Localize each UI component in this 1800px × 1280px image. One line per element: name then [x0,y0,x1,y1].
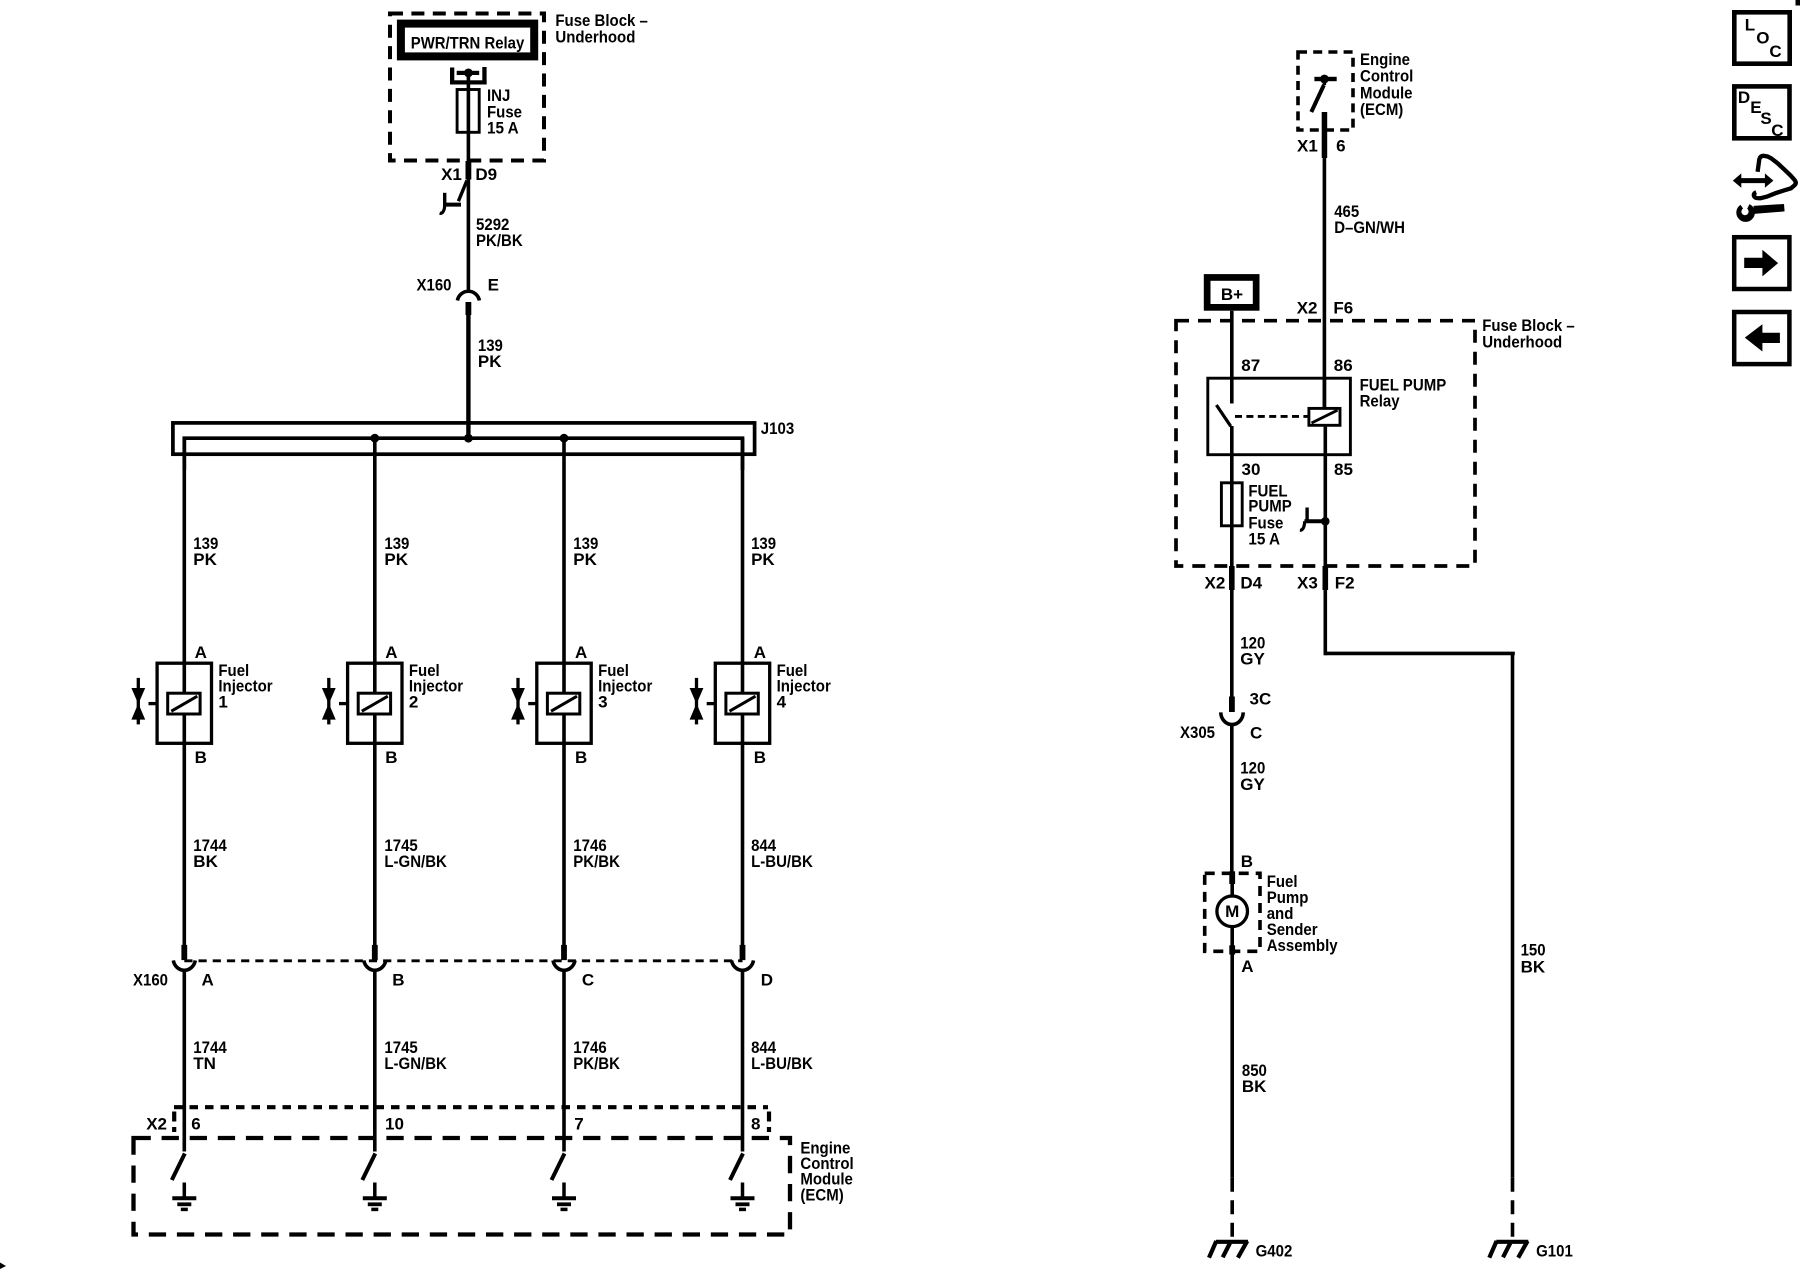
label: Fuel Injector 3 [598,661,653,711]
svg-text:G101: G101 [1536,1241,1573,1260]
svg-text:Assembly: Assembly [1267,936,1338,955]
pin B of injector 4 [754,748,766,767]
splice pack J103 bus bar [173,423,755,470]
fuel pump and sender assembly dashed box [1205,873,1260,951]
svg-text:L: L [1745,16,1755,35]
label: FUEL PUMP Fuse 15 A [1248,481,1291,548]
svg-text:F2: F2 [1335,574,1355,593]
svg-text:L-GN/BK: L-GN/BK [384,852,447,871]
label: FUEL PUMP Relay [1360,376,1447,411]
label: Fuel Injector 1 [218,661,273,711]
wire relay 85 down [1324,425,1328,655]
pin X2-D4 tick [1229,566,1235,590]
B+ battery feed box [1204,274,1260,311]
label: 844 L-BU/BK [751,1038,813,1073]
ground G402 [1209,1241,1248,1258]
svg-text:(ECM): (ECM) [800,1185,843,1204]
svg-text:S: S [1760,109,1771,128]
svg-text:(ECM): (ECM) [1360,100,1403,119]
label pin 7 [574,1114,583,1133]
label: Fuel Injector 2 [409,661,464,711]
ground (ECM internal) 4 [731,1183,755,1210]
injector 4 coil [726,693,758,714]
svg-text:PK/BK: PK/BK [476,231,523,250]
svg-text:B: B [1241,852,1253,871]
svg-text:B: B [195,748,207,767]
label pin C [582,971,594,990]
injector 1 coil [168,693,200,714]
svg-text:X1: X1 [441,165,462,184]
fuel injector 2 box [348,663,402,743]
ECM driver switch 3 [552,1154,565,1181]
hook tap symbol at X1 D9 [440,181,467,214]
pin A of injector 1 [195,643,207,662]
label: 5292 PK/BK [476,215,523,250]
svg-text:L-BU/BK: L-BU/BK [751,1054,813,1073]
wire 1746 PK/BK [562,972,566,1152]
svg-text:Relay: Relay [1360,392,1400,411]
fuse holder clip for INJ fuse [450,67,487,90]
wire 150 BK (horizontal + vertical) [1325,653,1513,1177]
label: 465 D-GN/WH [1334,202,1405,237]
fuse block underhood (left) dashed box [390,14,544,161]
svg-text:B+: B+ [1221,285,1243,304]
svg-text:85: 85 [1334,460,1353,479]
pin tick top of pump box [1229,871,1235,884]
label: 1746 PK/BK [573,836,620,871]
svg-text:A: A [202,971,214,990]
label: Fuse Block - Underhood (right) [1482,316,1575,352]
pin A label [1241,957,1253,976]
wire 1744 TN [183,972,187,1152]
label: 139 PK col 2 [384,534,409,569]
pin B of injector 1 [195,748,207,767]
dashed wire to G402 [1230,1178,1234,1240]
PWR/TRN Relay box [397,20,538,61]
icon forward arrow box [1734,237,1789,289]
pin A of injector 4 [754,643,766,662]
svg-text:PK: PK [751,550,775,569]
svg-text:BK: BK [1242,1077,1267,1096]
label pin 8 [751,1114,760,1133]
ECM (top right) dashed box [1298,52,1353,130]
svg-text:A: A [385,643,397,662]
dashed wire to G101 [1511,1178,1515,1240]
fuse F2: FUEL PUMP Fuse 15 A [1221,483,1242,566]
wire 120 GY upper [1230,590,1234,697]
svg-text:X160: X160 [133,971,168,990]
wire 86 coil feed inside relay [1323,378,1327,409]
svg-text:X2: X2 [146,1114,167,1133]
svg-text:86: 86 [1334,356,1353,375]
svg-text:B: B [754,748,766,767]
fuel injector 4 box [715,663,769,743]
label: 1746 PK/BK [573,1038,620,1073]
wire 120 GY lower [1230,724,1234,874]
pin A of injector 3 [575,643,587,662]
svg-text:B: B [385,748,397,767]
connector X160 dashed link row [184,959,742,962]
svg-text:M: M [1225,902,1239,921]
connector X305 pin C (tick + cup) [1221,697,1243,725]
ECM internal driver (top right) [1311,75,1336,112]
connector X160 pin E (dome + tick) [457,291,479,315]
ground G101 [1489,1241,1528,1258]
wire 139 PK to injector 4 [741,438,745,945]
svg-text:TN: TN [193,1054,216,1073]
relay dashed actuation link [1235,415,1309,418]
svg-text:B: B [575,748,587,767]
svg-text:Underhood: Underhood [555,27,635,46]
relay switch blade [1216,405,1230,426]
pin X1-6 tick [1322,112,1328,158]
connector X160 pin C (tick + cup) [553,945,575,970]
svg-text:A: A [1241,957,1253,976]
injector 2 valve symbol [322,678,348,725]
wire 844 L-BU/BK [741,972,745,1152]
label: 120 GY (upper) [1240,633,1265,668]
label: Fuel Injector 4 [777,661,832,711]
relay pin labels 87 86 [1241,356,1352,375]
svg-text:A: A [195,643,207,662]
svg-text:X1: X1 [1297,136,1318,155]
svg-text:PK/BK: PK/BK [573,1054,620,1073]
svg-text:Underhood: Underhood [1482,332,1562,351]
svg-text:X305: X305 [1180,723,1215,742]
svg-text:D9: D9 [475,165,497,184]
ECM (left) dashed box [134,1138,791,1235]
svg-text:E: E [488,275,499,294]
injector 3 coil [547,693,579,714]
svg-text:87: 87 [1241,356,1260,375]
svg-text:GY: GY [1240,650,1265,669]
pin A of injector 2 [385,643,397,662]
pin B of injector 3 [575,748,587,767]
fuel injector 3 box [537,663,591,743]
label X160 (row) [133,971,168,990]
label: 139 PK col 1 [193,534,218,569]
injector 3 valve symbol [511,678,537,725]
svg-text:PK: PK [384,550,408,569]
label X2 (row) [146,1114,167,1133]
svg-text:A: A [575,643,587,662]
pin B label [1241,852,1253,871]
label: 139 PK (feed) [478,336,503,371]
svg-text:BK: BK [193,852,218,871]
wire 5292 PK/BK [467,180,471,291]
svg-text:X2: X2 [1297,298,1318,317]
svg-text:D4: D4 [1240,574,1262,593]
label X2 | F6 [1297,298,1354,317]
injector 4 valve symbol [690,678,716,725]
svg-text:30: 30 [1242,460,1261,479]
wire 139 PK to injector 1 [183,438,187,945]
label pin A [202,971,214,990]
svg-text:X2: X2 [1205,574,1226,593]
labels X2 D4 X3 F2 [1205,574,1355,593]
label: 850 BK [1242,1061,1267,1096]
svg-text:2: 2 [409,692,418,711]
pin X1-D9 tick [466,161,472,180]
connector X160 pin A (tick + cup) [173,945,195,970]
label: 1744 BK [193,836,227,871]
svg-text:PK: PK [193,550,217,569]
connector X160 pin B (tick + cup) [364,945,386,970]
svg-text:B: B [392,971,404,990]
pin X3-F2 tick [1323,566,1329,590]
svg-text:15 A: 15 A [1248,529,1280,548]
wire relay 30 to fuse [1230,426,1234,483]
icon back arrow box [1734,312,1789,364]
label pin D [761,971,773,990]
icon wrench with arrows [1733,156,1796,222]
svg-text:C: C [1250,724,1262,743]
wire 1745 L-GN/BK [373,972,377,1152]
label: 1745 L-GN/BK [384,1038,447,1073]
wire 139 PK to injector 3 [562,438,566,945]
svg-text:3C: 3C [1250,690,1272,709]
label: 139 PK col 4 [751,534,776,569]
wire 139 PK to injector 2 [373,438,377,945]
label: 139 PK col 3 [573,534,598,569]
fuel pump relay box [1208,378,1351,455]
fuel pump motor M [1217,884,1248,947]
svg-text:BK: BK [1521,958,1546,977]
svg-text:6: 6 [1336,136,1345,155]
hook tap symbol at 85 wire [1300,508,1330,531]
label G402 [1256,1241,1293,1260]
label X1 | 6 [1297,136,1346,155]
label pin 10 [385,1114,404,1133]
svg-text:X160: X160 [417,275,452,294]
svg-text:PK/BK: PK/BK [573,852,620,871]
label: 1745 L-GN/BK [384,836,447,871]
svg-text:PK: PK [478,352,502,371]
icon LOC box [1734,12,1789,63]
svg-text:C: C [1771,121,1783,140]
label: Fuse Block - Underhood (left) [555,11,648,47]
ground (ECM internal) 3 [552,1183,576,1210]
label: INJ Fuse 15 A [487,86,522,137]
label X160 E [417,275,499,294]
fuel injector 1 box [157,663,211,743]
svg-text:D: D [761,971,773,990]
label: 844 L-BU/BK [751,836,813,871]
label: 1744 TN [193,1038,227,1073]
svg-text:6: 6 [191,1114,200,1133]
svg-text:L-GN/BK: L-GN/BK [384,1054,447,1073]
svg-text:J103: J103 [761,419,794,438]
svg-text:PK: PK [573,550,597,569]
labels 3C / X305 / C [1180,690,1271,743]
connector X160 pin D (tick + cup) [732,945,754,970]
ECM driver switch 2 [362,1154,375,1181]
svg-text:10: 10 [385,1114,404,1133]
svg-text:4: 4 [777,692,787,711]
svg-text:D: D [1738,88,1750,107]
svg-text:O: O [1756,29,1769,48]
svg-text:L-BU/BK: L-BU/BK [751,852,813,871]
label: Engine Control Module (ECM) right [1360,50,1413,119]
svg-text:GY: GY [1240,775,1265,794]
connector X2 dotted row [174,1107,769,1132]
svg-text:7: 7 [574,1114,583,1133]
svg-text:X3: X3 [1297,574,1318,593]
svg-text:15 A: 15 A [487,119,519,138]
svg-text:C: C [1769,42,1781,61]
label J103 [761,419,794,438]
wire 139 PK feed to J103 [466,315,470,438]
relay coil [1309,408,1340,425]
svg-text:PWR/TRN Relay: PWR/TRN Relay [411,34,525,53]
svg-text:G402: G402 [1256,1241,1293,1260]
pin tick bottom of pump box [1229,945,1235,954]
svg-text:A: A [754,643,766,662]
pin B of injector 2 [385,748,397,767]
label: Engine Control Module (ECM) left [800,1138,853,1204]
svg-text:1: 1 [218,692,227,711]
svg-text:3: 3 [598,692,607,711]
svg-text:D–GN/WH: D–GN/WH [1334,218,1405,237]
fuse F1: INJ Fuse 15 A [457,90,479,162]
label X1 | D9 [441,165,497,184]
svg-text:8: 8 [751,1114,760,1133]
fuse block underhood (right) dashed box [1176,321,1475,566]
injector 2 coil [358,693,390,714]
label: Fuel Pump and Sender Assembly [1267,872,1338,955]
icon DESC box [1734,86,1789,140]
label pin 6 [191,1114,200,1133]
wire 850 BK [1230,954,1234,1178]
svg-text:F6: F6 [1333,298,1353,317]
label G101 [1536,1241,1573,1260]
label pin B [392,971,404,990]
relay pin labels 30 85 [1242,460,1353,479]
svg-text:C: C [582,971,594,990]
injector 1 valve symbol [131,678,157,725]
label: 120 GY (lower) [1240,759,1265,794]
ECM driver switch 1 [172,1154,185,1181]
ECM driver switch 4 [730,1154,743,1181]
label: 150 BK [1521,941,1546,977]
ground (ECM internal) 1 [172,1183,196,1210]
ground (ECM internal) 2 [363,1183,387,1210]
wire B+ to relay 87 [1230,311,1234,404]
wire 465 D-GN/WH [1323,158,1327,409]
